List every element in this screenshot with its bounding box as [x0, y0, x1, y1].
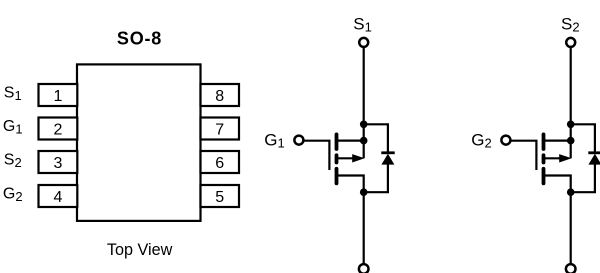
transistor Q1 source bar [335, 133, 339, 151]
wire source vertical [363, 48, 365, 159]
pin 6 box [201, 151, 240, 173]
wire drain tap [337, 176, 364, 193]
transistor Q1 drain bar [335, 167, 339, 185]
pin 8 box [201, 84, 240, 106]
svg-text:2: 2 [53, 121, 62, 138]
wire source vertical [570, 48, 572, 159]
wire drain tap [544, 176, 571, 193]
pin 4 box [39, 185, 78, 207]
diode D1 triangle [381, 154, 394, 165]
wire body tap [337, 157, 356, 159]
svg-text:S2: S2 [4, 152, 22, 170]
svg-text:7: 7 [215, 121, 224, 138]
svg-text:S2: S2 [561, 15, 580, 35]
svg-text:G1: G1 [3, 118, 23, 136]
wire diode branch [571, 124, 595, 152]
wire diode return [364, 164, 388, 192]
svg-text:6: 6 [215, 155, 224, 172]
terminal G1 circle [294, 136, 303, 145]
transistor Q2 body bar [542, 153, 546, 164]
terminal S2 circle [566, 38, 575, 47]
svg-text:5: 5 [215, 189, 224, 206]
node B2 junction dot source [567, 137, 575, 145]
node A junction dot diode top [360, 121, 368, 129]
transistor Q2 body arrow [559, 154, 571, 162]
terminal G2 circle [501, 136, 510, 145]
svg-text:G2: G2 [3, 186, 23, 204]
pin 7 box [201, 118, 240, 140]
wire drain vertical [363, 192, 365, 263]
svg-text:S1: S1 [4, 85, 22, 103]
diode D1 cathode bar [381, 151, 394, 154]
package body [77, 64, 201, 221]
svg-text:8: 8 [215, 88, 224, 105]
pin 2 box [39, 118, 78, 140]
svg-text:S1: S1 [353, 15, 372, 35]
svg-text:4: 4 [53, 189, 62, 206]
pin 1 box [39, 84, 78, 106]
transistor Q2 source bar [542, 133, 546, 151]
svg-text:G2: G2 [471, 130, 491, 150]
wire diode branch [364, 124, 388, 152]
diode D2 cathode bar [588, 151, 600, 154]
wire gate lead [511, 141, 537, 170]
svg-text:Top View: Top View [107, 241, 173, 259]
pin 5 box [201, 185, 240, 207]
node A2 junction dot diode top [567, 121, 575, 129]
transistor Q1 body bar [335, 153, 339, 164]
svg-text:1: 1 [53, 88, 62, 105]
node B junction dot source [360, 137, 368, 145]
svg-text:SO-8: SO-8 [117, 28, 162, 48]
svg-text:3: 3 [53, 155, 62, 172]
wire diode return [571, 164, 595, 192]
wire gate lead [304, 141, 330, 170]
diode D2 triangle [588, 154, 600, 165]
wire drain vertical [570, 192, 572, 263]
transistor Q1 body arrow [352, 154, 364, 162]
terminal D1 circle [359, 264, 369, 273]
node C2 junction dot drain [567, 188, 575, 196]
svg-text:G1: G1 [264, 130, 284, 150]
wire source tap [337, 140, 364, 142]
pin 3 box [39, 151, 78, 173]
terminal D2 circle [566, 264, 576, 273]
wire source tap [544, 140, 571, 142]
wire body tap [544, 157, 563, 159]
terminal S1 circle [359, 38, 368, 47]
transistor Q2 drain bar [542, 167, 546, 185]
node C junction dot drain [360, 188, 368, 196]
